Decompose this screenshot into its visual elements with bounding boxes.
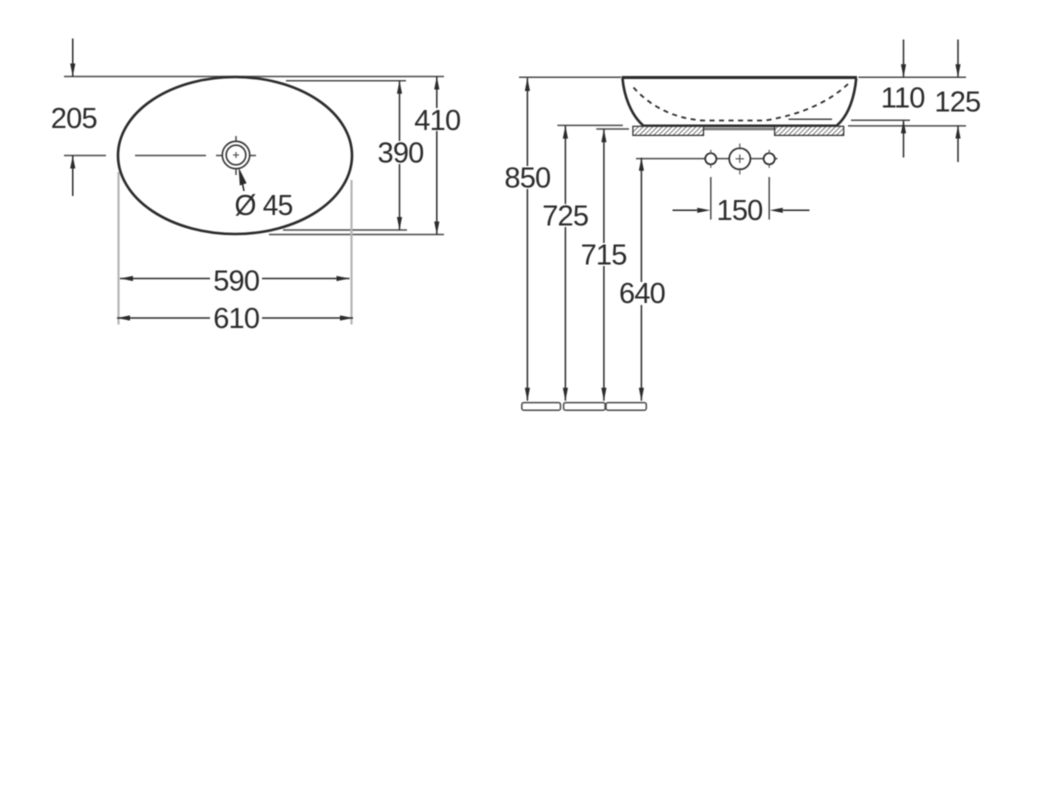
svg-text:640: 640 (619, 278, 665, 310)
svg-text:150: 150 (717, 195, 763, 227)
svg-text:110: 110 (881, 83, 925, 115)
svg-text:850: 850 (504, 163, 550, 195)
svg-text:590: 590 (213, 266, 259, 298)
svg-text:410: 410 (414, 105, 460, 137)
svg-text:125: 125 (934, 87, 980, 119)
svg-text:Ø 45: Ø 45 (235, 190, 293, 222)
svg-text:715: 715 (581, 240, 627, 272)
svg-text:610: 610 (213, 303, 259, 335)
svg-text:390: 390 (378, 138, 424, 170)
svg-text:725: 725 (542, 200, 588, 232)
svg-text:205: 205 (51, 103, 97, 135)
